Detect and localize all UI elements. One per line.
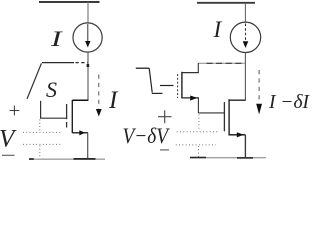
svg-text:V: V xyxy=(0,125,17,152)
svg-text:I −δI: I −δI xyxy=(268,91,310,113)
node junction dot xyxy=(87,64,90,67)
right ground rail dark segment left xyxy=(190,157,206,159)
wire rail to current source I2 xyxy=(244,3,246,23)
switch transistor M2 drain lead xyxy=(182,72,199,74)
current source I2 arrow (dashed shaft) xyxy=(243,24,249,49)
transistor M3 source wire to ground xyxy=(244,135,246,158)
left supply rail xyxy=(39,1,100,3)
switch transistor M2 drain link dark dashes xyxy=(207,62,245,64)
current source I2 circle xyxy=(230,22,260,52)
capacitor C2 top plate (dotted) xyxy=(177,131,218,133)
wire current source to drain node xyxy=(87,52,89,101)
transistor M3 drain lead xyxy=(229,99,245,101)
transistor M3 gate wire xyxy=(198,112,225,114)
current source I1 arrow xyxy=(85,24,90,48)
transistor M1 gate wire xyxy=(40,117,67,119)
right ground rail xyxy=(190,157,266,159)
transistor M1 channel bar xyxy=(71,100,73,133)
switch S top wire dashed part xyxy=(76,62,88,64)
switch transistor M2 channel bar xyxy=(181,72,183,99)
left ground rail xyxy=(30,158,105,160)
wire rail to current source I1 xyxy=(87,2,89,24)
switch transistor M2 drain link wire (gray) xyxy=(198,62,245,64)
capacitor C1 bottom plate (dotted) xyxy=(23,143,61,145)
transistor M1 gate bar upper xyxy=(66,104,68,119)
capacitor C1 bottom lead (dotted) xyxy=(39,146,41,158)
svg-text:I: I xyxy=(213,17,223,42)
wire current source to drain node xyxy=(244,52,246,100)
capacitor C2 bottom lead (dotted) xyxy=(198,146,200,157)
capacitor C2 bottom plate (dotted) xyxy=(176,144,216,146)
left ground rail dark dash xyxy=(29,158,34,160)
transistor M3 channel bar xyxy=(228,99,230,135)
svg-text:S: S xyxy=(46,77,57,102)
switch S top wire xyxy=(42,62,74,64)
clock waveform low level xyxy=(152,92,163,94)
current source I1 circle xyxy=(73,23,102,52)
switch transistor M2 drain link vertical xyxy=(197,63,199,73)
switch transistor M2 source vertical wire xyxy=(197,98,199,113)
transistor M3 source lead with arrow xyxy=(229,132,245,137)
transistor M1 source wire to ground xyxy=(87,133,89,159)
transistor M1 source lead with arrow xyxy=(72,130,88,135)
minus sign (right) xyxy=(160,149,169,151)
output current I dashed arrow xyxy=(96,75,102,117)
clock waveform falling edge xyxy=(149,68,152,92)
output current I-dI dashed arrow xyxy=(256,70,262,115)
capacitor C1 top lead (dotted) xyxy=(39,120,41,133)
left ground rail dark segment xyxy=(74,158,96,160)
capacitor C1 top plate (dotted) xyxy=(23,131,61,133)
right supply rail xyxy=(197,2,255,4)
clock waveform high level xyxy=(136,67,149,69)
switch transistor M2 gate bar (dashed) xyxy=(177,74,179,98)
right ground rail dark segment at junction xyxy=(237,157,253,159)
switch S lever xyxy=(27,63,41,99)
switch S bottom terminal wire xyxy=(40,101,42,118)
transistor M3 gate bar xyxy=(223,102,225,131)
plus sign (right) xyxy=(158,110,172,123)
capacitor C2 top lead (dotted) xyxy=(198,115,200,132)
svg-text:I: I xyxy=(50,26,64,51)
switch transistor M2 gate lead xyxy=(160,85,174,87)
minus sign (left) xyxy=(2,154,15,156)
svg-text:V−δV: V−δV xyxy=(123,123,171,148)
transistor M1 gate bar lower xyxy=(66,122,68,128)
transistor M1 drain lead xyxy=(72,99,88,101)
switch transistor M2 source lead with arrow xyxy=(182,96,199,101)
plus sign (left) xyxy=(10,106,20,116)
svg-text:I: I xyxy=(108,87,119,114)
